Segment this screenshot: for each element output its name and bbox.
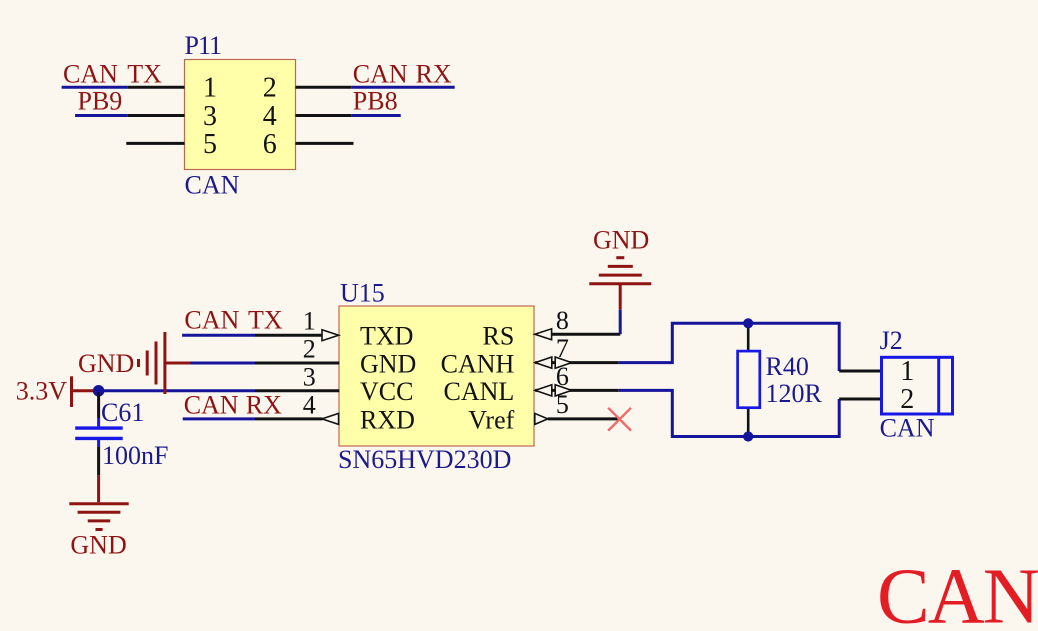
svg-text:6: 6 bbox=[556, 362, 569, 391]
svg-text:GND: GND bbox=[360, 349, 416, 378]
svg-text:2: 2 bbox=[303, 335, 316, 364]
svg-text:J2: J2 bbox=[880, 326, 903, 355]
svg-text:RX: RX bbox=[246, 391, 282, 420]
svg-text:1: 1 bbox=[900, 356, 914, 387]
svg-text:PB8: PB8 bbox=[353, 87, 398, 116]
svg-text:100nF: 100nF bbox=[102, 441, 168, 470]
svg-text:1: 1 bbox=[203, 73, 217, 104]
svg-text:2: 2 bbox=[263, 73, 277, 104]
svg-text:TX: TX bbox=[127, 60, 162, 89]
svg-text:3: 3 bbox=[303, 362, 316, 391]
svg-text:Vref: Vref bbox=[468, 405, 514, 434]
svg-text:CAN: CAN bbox=[63, 60, 118, 89]
svg-text:U15: U15 bbox=[340, 278, 385, 307]
svg-text:2: 2 bbox=[900, 384, 914, 415]
svg-text:RS: RS bbox=[482, 322, 514, 351]
svg-text:6: 6 bbox=[263, 129, 277, 160]
svg-text:CAN: CAN bbox=[880, 413, 935, 442]
svg-text:CAN: CAN bbox=[353, 59, 408, 88]
svg-text:4: 4 bbox=[263, 101, 277, 132]
svg-text:R40: R40 bbox=[766, 352, 809, 381]
svg-text:RX: RX bbox=[416, 59, 452, 88]
svg-text:CAN: CAN bbox=[185, 170, 240, 199]
svg-text:PB9: PB9 bbox=[78, 87, 123, 116]
svg-text:CAN: CAN bbox=[877, 554, 1038, 631]
svg-text:120R: 120R bbox=[766, 379, 823, 408]
svg-text:TX: TX bbox=[248, 306, 283, 335]
svg-text:C61: C61 bbox=[101, 398, 144, 427]
svg-text:VCC: VCC bbox=[360, 377, 413, 406]
svg-text:CANH: CANH bbox=[441, 349, 515, 378]
svg-text:7: 7 bbox=[556, 334, 569, 363]
svg-text:GND: GND bbox=[78, 349, 134, 378]
svg-text:TXD: TXD bbox=[360, 322, 413, 351]
svg-text:3.3V: 3.3V bbox=[16, 376, 68, 405]
svg-text:GND: GND bbox=[70, 531, 126, 560]
svg-text:CAN: CAN bbox=[184, 391, 239, 420]
svg-text:5: 5 bbox=[203, 129, 217, 160]
svg-text:P11: P11 bbox=[185, 31, 222, 60]
svg-text:SN65HVD230D: SN65HVD230D bbox=[338, 445, 511, 474]
svg-text:RXD: RXD bbox=[360, 405, 415, 434]
svg-text:GND: GND bbox=[593, 226, 649, 255]
svg-text:4: 4 bbox=[303, 390, 316, 419]
svg-text:CANL: CANL bbox=[444, 377, 515, 406]
svg-text:5: 5 bbox=[556, 390, 569, 419]
svg-text:8: 8 bbox=[556, 306, 569, 335]
svg-text:1: 1 bbox=[303, 307, 316, 336]
svg-text:3: 3 bbox=[203, 101, 217, 132]
svg-text:CAN: CAN bbox=[184, 306, 239, 335]
